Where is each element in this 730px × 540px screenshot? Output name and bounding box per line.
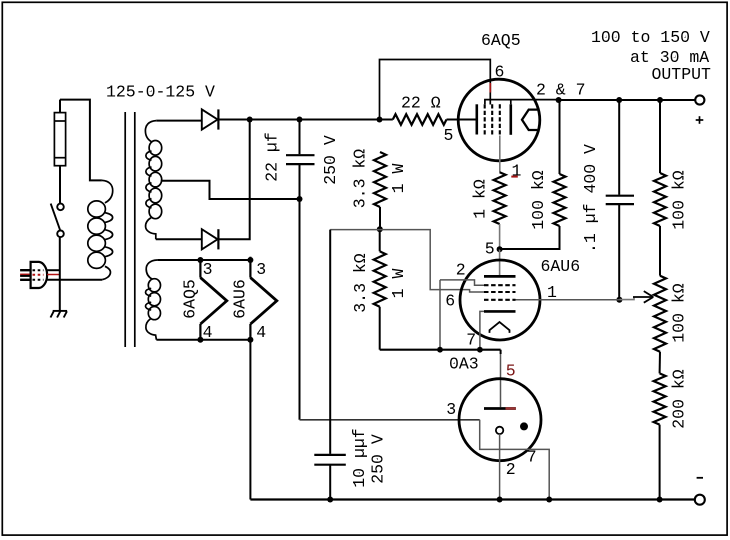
svg-text:7: 7	[466, 331, 476, 350]
svg-text:OUTPUT: OUTPUT	[652, 65, 712, 84]
svg-text:5: 5	[485, 240, 495, 259]
svg-text:2: 2	[456, 261, 466, 280]
svg-text:3.3 kΩ: 3.3 kΩ	[351, 253, 370, 313]
svg-text:3.3 kΩ: 3.3 kΩ	[351, 149, 370, 209]
svg-text:125-0-125 V: 125-0-125 V	[106, 83, 215, 102]
svg-text:1 W: 1 W	[389, 269, 408, 299]
svg-text:22 Ω: 22 Ω	[401, 94, 441, 113]
svg-text:6AU6: 6AU6	[541, 257, 581, 276]
svg-text:100 kΩ: 100 kΩ	[529, 170, 548, 230]
svg-text:7: 7	[527, 448, 537, 467]
svg-text:22 µf: 22 µf	[262, 132, 281, 182]
svg-text:6AQ5: 6AQ5	[481, 31, 521, 50]
svg-text:1 kΩ: 1 kΩ	[471, 179, 490, 219]
svg-text:6AU6: 6AU6	[231, 279, 250, 319]
svg-text:4: 4	[203, 323, 213, 342]
svg-text:3: 3	[256, 260, 266, 279]
svg-text:2 & 7: 2 & 7	[536, 81, 586, 100]
svg-text:200 kΩ: 200 kΩ	[669, 369, 688, 429]
svg-text:10 µµf: 10 µµf	[350, 428, 369, 487]
svg-text:6AQ5: 6AQ5	[181, 279, 200, 319]
svg-text:100 kΩ: 100 kΩ	[669, 170, 688, 230]
svg-text:5: 5	[506, 362, 516, 381]
svg-text:4: 4	[256, 323, 266, 342]
svg-text:5: 5	[444, 126, 454, 145]
svg-text:250 V: 250 V	[369, 434, 388, 484]
svg-text:100 to 150 V: 100 to 150 V	[591, 28, 710, 47]
svg-text:1: 1	[547, 283, 557, 302]
svg-text:0A3: 0A3	[449, 355, 479, 374]
svg-text:1 W: 1 W	[389, 164, 408, 194]
svg-text:1: 1	[512, 162, 522, 181]
svg-text:100 kΩ: 100 kΩ	[669, 283, 688, 343]
svg-text:3: 3	[446, 400, 456, 419]
svg-text:2: 2	[506, 460, 516, 479]
svg-text:250 V: 250 V	[321, 135, 340, 185]
svg-text:3: 3	[203, 260, 213, 279]
svg-text:6: 6	[495, 63, 505, 82]
svg-text:.1 µf 400 V: .1 µf 400 V	[581, 144, 600, 253]
svg-text:6: 6	[445, 292, 455, 311]
